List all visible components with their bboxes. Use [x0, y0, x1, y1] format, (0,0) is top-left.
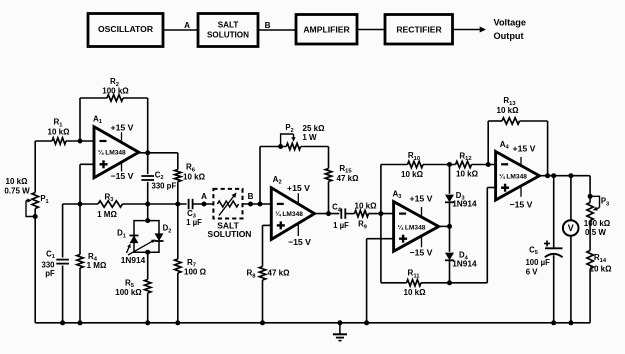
- wire left vertical top (R1 corner down to P1): [34, 141, 36, 193]
- svg-text:1 MΩ: 1 MΩ: [97, 210, 117, 219]
- svg-text:−15 V: −15 V: [510, 199, 533, 209]
- svg-text:10 kΩ: 10 kΩ: [6, 177, 29, 186]
- wire amplifier to rectifier: [357, 29, 385, 31]
- diode D4: [445, 253, 454, 261]
- power +15V A1: [121, 132, 123, 140]
- capacitor C5 (electrolytic): [545, 247, 563, 249]
- block RECTIFIER: [385, 15, 453, 45]
- svg-text:6 V: 6 V: [526, 268, 539, 277]
- wire R2 feedback top: [80, 97, 107, 99]
- wire box to node B: [243, 203, 272, 205]
- wire R13 left riser: [487, 121, 489, 165]
- resistor R4: [79, 204, 81, 255]
- wire diode box riser: [147, 204, 149, 221]
- node R13 junction: [486, 162, 491, 167]
- svg-text:1N914: 1N914: [452, 259, 477, 269]
- wire R10 line: [381, 164, 408, 166]
- svg-text:1 µF: 1 µF: [186, 218, 202, 227]
- node A1 output: [145, 150, 150, 155]
- resistor R14: [587, 251, 593, 269]
- svg-text:A: A: [201, 192, 207, 201]
- resistor R15: [325, 169, 331, 182]
- node voltmeter branch: [568, 173, 573, 178]
- block OSCILLATOR: [88, 14, 163, 47]
- svg-text:1 MΩ: 1 MΩ: [87, 261, 107, 270]
- svg-text:RECTIFIER: RECTIFIER: [396, 25, 442, 35]
- node A3 output: [447, 224, 452, 229]
- svg-text:10 kΩ: 10 kΩ: [48, 127, 71, 136]
- wire C3 to node A: [193, 203, 214, 205]
- capacitor C4: [340, 208, 342, 218]
- voltmeter V: [563, 220, 579, 236]
- resistor R8: [259, 267, 265, 281]
- svg-text:−15 V: −15 V: [410, 248, 433, 258]
- svg-text:SOLUTION: SOLUTION: [207, 31, 249, 40]
- wire C5 riser: [553, 176, 555, 249]
- svg-text:10 kΩ: 10 kΩ: [456, 170, 479, 179]
- wire A4 output: [539, 175, 590, 177]
- node C1 bus: [60, 320, 65, 325]
- wire D3 to output node: [449, 202, 451, 252]
- svg-text:10 kΩ: 10 kΩ: [401, 170, 424, 179]
- potentiometer P1: [32, 193, 38, 209]
- wire R2 feedback right riser: [147, 98, 149, 153]
- wire R13 right riser: [547, 121, 549, 176]
- svg-text:AMPLIFIER: AMPLIFIER: [303, 25, 350, 35]
- svg-text:0.75 W: 0.75 W: [4, 186, 30, 195]
- wire R2 feedback left riser: [79, 98, 81, 141]
- svg-text:¼ LM348: ¼ LM348: [499, 172, 527, 180]
- node voltmeter bus: [568, 320, 573, 325]
- wire A2 noninverting input: [263, 224, 272, 226]
- wire A1 noninverting input: [80, 163, 94, 165]
- resistor R3: [98, 201, 123, 207]
- wire oscillator to salt solution: [163, 29, 198, 31]
- node R4 bus: [78, 320, 83, 325]
- wire R12 segment: [472, 164, 496, 166]
- wire A3 output: [439, 225, 450, 227]
- node A3 plus bus: [364, 320, 369, 325]
- svg-text:+15 V: +15 V: [111, 122, 134, 132]
- svg-text:pF: pF: [45, 269, 55, 278]
- resistor R11: [407, 280, 422, 286]
- svg-text:10 kΩ: 10 kΩ: [183, 172, 206, 181]
- resistor R5: [147, 252, 149, 279]
- svg-text:1N914: 1N914: [121, 255, 146, 265]
- svg-text:+15 V: +15 V: [287, 183, 310, 193]
- svg-text:B: B: [248, 192, 254, 201]
- wire salt solution to amplifier: [258, 29, 296, 31]
- node ground junction: [337, 320, 342, 325]
- diode D2: [155, 233, 164, 241]
- capacitor C2: [147, 153, 149, 174]
- svg-text:10 kΩ: 10 kΩ: [497, 106, 520, 115]
- resistor R7: [177, 204, 179, 259]
- wire R15 riser: [328, 147, 330, 169]
- resistor R9: [355, 210, 369, 216]
- potentiometer P3: [587, 203, 593, 221]
- node P2 riser junction: [258, 202, 263, 207]
- svg-text:10 kΩ: 10 kΩ: [355, 201, 378, 210]
- svg-text:1N914: 1N914: [452, 198, 477, 208]
- resistor R1: [52, 138, 66, 144]
- potentiometer P2: [286, 143, 300, 149]
- wire R9 to A3 summing node: [369, 213, 394, 215]
- power -15V A1: [121, 163, 123, 172]
- svg-text:25 kΩ: 25 kΩ: [303, 124, 326, 133]
- power -15V A3: [421, 236, 423, 247]
- wire R11 line: [381, 282, 407, 284]
- diode D3: [445, 195, 454, 203]
- svg-text:¼ LM348: ¼ LM348: [98, 149, 126, 157]
- node C5 bus: [551, 320, 556, 325]
- svg-text:100 µF: 100 µF: [525, 258, 550, 267]
- wire summing node down to R11: [380, 214, 382, 283]
- diode D1: [130, 236, 139, 244]
- node A1 inverting input: [78, 139, 83, 144]
- wire P3 to R14: [589, 221, 591, 251]
- node A: [202, 202, 207, 207]
- ground symbol: [339, 323, 341, 335]
- resistor R6: [177, 153, 179, 170]
- svg-text:10 kΩ: 10 kΩ: [590, 264, 613, 273]
- node R8 bus: [260, 320, 265, 325]
- svg-text:¼ LM348: ¼ LM348: [275, 210, 303, 218]
- svg-text:100 kΩ: 100 kΩ: [584, 219, 611, 228]
- svg-text:¼ LM348: ¼ LM348: [398, 223, 426, 231]
- svg-text:SALT: SALT: [218, 20, 239, 29]
- svg-text:100 Ω: 100 Ω: [184, 268, 207, 277]
- svg-text:A: A: [184, 21, 190, 30]
- svg-text:10 kΩ: 10 kΩ: [404, 288, 427, 297]
- wire rectifier output arrow: [453, 29, 482, 31]
- svg-text:Output: Output: [494, 31, 524, 41]
- capacitor C3: [188, 199, 190, 209]
- resistor R10: [408, 161, 424, 167]
- resistor R2: [107, 95, 123, 101]
- svg-text:B: B: [265, 21, 271, 30]
- ground bus: [35, 322, 590, 324]
- node C5 branch: [551, 173, 556, 178]
- svg-text:+15 V: +15 V: [410, 193, 433, 203]
- node R6 branch: [175, 202, 180, 207]
- node R5 bus: [145, 320, 150, 325]
- block AMPLIFIER: [296, 15, 357, 45]
- wire R10 left riser: [380, 165, 382, 214]
- wire R13 top line: [488, 120, 502, 122]
- wire C4 to R9: [345, 213, 354, 215]
- node C2 diode branch: [145, 202, 150, 207]
- wire D4 to R11 node: [449, 260, 451, 283]
- node A2 output: [326, 211, 331, 216]
- wire P3 drop: [589, 176, 591, 203]
- svg-text:+15 V: +15 V: [513, 143, 536, 153]
- node R7 bus: [175, 320, 180, 325]
- op-amp A3: [394, 202, 439, 252]
- svg-text:−15 V: −15 V: [111, 171, 134, 181]
- wire voltmeter riser: [570, 176, 572, 221]
- wire P2 riser: [259, 147, 261, 205]
- resistor R13: [502, 118, 520, 124]
- power +15V A2: [297, 193, 299, 202]
- wire A4 noninverting riser: [486, 188, 488, 283]
- power +15V A3: [421, 207, 423, 217]
- wire C1 riser: [62, 204, 64, 258]
- wire R1 line: [35, 140, 52, 142]
- resistor R12: [456, 161, 472, 167]
- op-amp A2: [271, 188, 314, 240]
- svg-text:47 kΩ: 47 kΩ: [268, 269, 291, 278]
- node R11 D4 junction: [447, 280, 452, 285]
- node D3 top: [447, 162, 452, 167]
- node B: [248, 202, 253, 207]
- wire mid rail center: [123, 203, 187, 205]
- wire D3 D4 vertical upper: [449, 165, 451, 194]
- svg-text:100 kΩ: 100 kΩ: [115, 288, 142, 297]
- wire A4 noninverting input: [487, 187, 495, 189]
- salt solution cell (dashed box): [213, 189, 242, 219]
- svg-text:330 pF: 330 pF: [152, 182, 177, 191]
- node R13 output: [545, 173, 550, 178]
- block SALT SOLUTION: [198, 14, 258, 47]
- wire mid rail left: [63, 203, 98, 205]
- power +15V A4: [520, 157, 522, 166]
- capacitor C1: [56, 259, 69, 261]
- node R4 branch: [78, 202, 83, 207]
- node A3 summing junction: [378, 211, 383, 216]
- svg-text:100 kΩ: 100 kΩ: [102, 86, 129, 95]
- op-amp A4: [496, 152, 540, 201]
- wire A2 output: [315, 213, 340, 215]
- svg-text:OSCILLATOR: OSCILLATOR: [98, 24, 154, 34]
- wire A3 noninverting input: [367, 238, 394, 240]
- wire P2 top line: [260, 146, 286, 148]
- svg-text:SOLUTION: SOLUTION: [208, 229, 252, 239]
- op-amp A1: [94, 127, 139, 178]
- svg-text:47 kΩ: 47 kΩ: [337, 174, 360, 183]
- power -15V A2: [297, 225, 299, 236]
- svg-text:−15 V: −15 V: [288, 237, 311, 247]
- svg-text:1 µF: 1 µF: [333, 221, 349, 230]
- svg-text:Voltage: Voltage: [494, 18, 527, 28]
- diode box: [134, 221, 148, 253]
- wire A1 output: [139, 152, 178, 154]
- svg-text:0.5 W: 0.5 W: [585, 228, 606, 237]
- power -15V A4: [520, 186, 522, 197]
- svg-text:1 W: 1 W: [302, 133, 317, 142]
- svg-text:V: V: [568, 223, 574, 233]
